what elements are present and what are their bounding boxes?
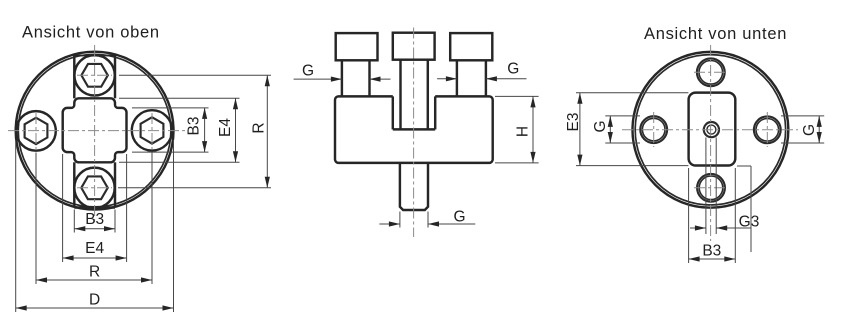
side view slot opening erase <box>393 94 435 129</box>
svg-text:D: D <box>89 292 100 309</box>
svg-text:H: H <box>515 126 532 137</box>
dimension R bottom <box>36 153 152 285</box>
bolt right counterbore <box>132 110 172 150</box>
hole bottom outer <box>697 174 725 202</box>
dimension G left of bottom view <box>592 116 640 143</box>
bolt left cross centerline <box>35 113 37 149</box>
dimension E4 bottom <box>63 154 127 262</box>
dimension G bottom <box>379 209 475 228</box>
bottom view center block <box>689 93 736 166</box>
dimension G top right <box>437 61 526 82</box>
dimension E3 <box>565 93 688 166</box>
hole top outer <box>697 58 725 86</box>
side view body <box>335 96 493 162</box>
svg-text:B3: B3 <box>85 211 104 228</box>
dimension G top left <box>294 63 391 82</box>
bolt top cross centerline <box>77 74 112 76</box>
svg-text:B3: B3 <box>186 117 203 136</box>
construction line vertical <box>750 166 752 252</box>
hole bottom cross centerline <box>694 187 728 189</box>
dimension E4 right side <box>119 98 240 162</box>
hole right outer <box>754 116 781 143</box>
top view flange outer circle <box>16 52 174 210</box>
hole right inner <box>756 119 779 142</box>
bottom view vertical centerline <box>710 45 712 241</box>
dimension G right of bottom view <box>781 116 824 143</box>
top view vertical centerline <box>94 45 96 222</box>
svg-text:G: G <box>302 63 314 80</box>
svg-text:G: G <box>592 120 609 132</box>
bolt bottom counterbore <box>74 168 114 208</box>
hole bottom inner <box>699 176 723 200</box>
bolt right hex head <box>141 117 164 143</box>
hole top cross centerline <box>694 71 728 73</box>
svg-text:B3: B3 <box>702 243 721 260</box>
top view pocket of bolt top <box>74 54 115 98</box>
top view center pad <box>63 98 127 162</box>
right screw shank <box>457 60 486 96</box>
bolt top counterbore <box>74 55 114 95</box>
dimension B3 bottom <box>74 210 115 233</box>
dimension B3 right side <box>132 108 209 152</box>
svg-text:E3: E3 <box>565 113 582 132</box>
svg-text:Ansicht von oben: Ansicht von oben <box>22 24 160 42</box>
center screw shank <box>401 60 428 129</box>
svg-text:G: G <box>453 209 465 226</box>
svg-text:R: R <box>251 122 268 133</box>
left screw shank <box>342 60 370 96</box>
left screw head <box>336 33 378 60</box>
svg-text:G: G <box>801 124 818 136</box>
svg-text:R: R <box>89 264 100 281</box>
hole left cross centerline <box>653 112 655 147</box>
svg-text:E4: E4 <box>85 240 104 257</box>
svg-text:E4: E4 <box>217 118 234 137</box>
construction line right of block <box>737 165 751 167</box>
center small hole outer <box>704 122 719 137</box>
dimension R right side <box>118 75 271 188</box>
svg-text:G3: G3 <box>739 214 760 231</box>
dimension H <box>495 96 539 162</box>
center small hole inner <box>707 125 716 134</box>
top view flange inner chamfer circle <box>18 54 171 207</box>
svg-text:Ansicht von unten: Ansicht von unten <box>644 25 787 43</box>
top view horizontal centerline <box>8 130 188 132</box>
dimension G3 <box>690 138 759 235</box>
bolt left counterbore <box>16 111 56 151</box>
side view slot walls <box>393 96 435 129</box>
side view vertical centerline <box>413 28 415 238</box>
bolt bottom hex head <box>81 176 107 199</box>
bottom view horizontal centerline <box>622 129 798 131</box>
hole left inner <box>642 118 665 141</box>
center screw head <box>393 33 435 60</box>
hole right cross centerline <box>766 112 768 147</box>
bolt left hex head <box>25 118 48 144</box>
bolt right cross centerline <box>151 113 153 149</box>
top view pocket of bolt bottom <box>74 162 115 207</box>
dimension B3 of bottom view <box>689 168 736 263</box>
hole top inner <box>699 61 723 85</box>
svg-text:G: G <box>507 61 519 78</box>
bottom view flange inner chamfer circle <box>635 55 785 205</box>
dimension D bottom <box>16 140 174 312</box>
bolt bottom cross centerline <box>77 187 112 189</box>
right screw head <box>450 33 492 60</box>
bolt top hex head <box>81 64 107 87</box>
hole left outer <box>640 116 667 143</box>
bottom view flange outer circle <box>633 52 789 208</box>
bottom pin <box>400 163 428 210</box>
